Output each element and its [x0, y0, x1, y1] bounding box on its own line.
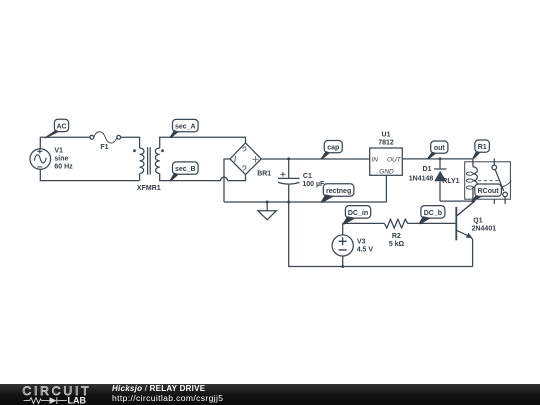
node sec_B [169, 162, 198, 182]
node sec_A [169, 119, 198, 138]
transistor Q1 2N4401 [456, 201, 496, 240]
wire Q1 emitter to bottom rail [471, 237, 473, 266]
footer bar [0, 384, 540, 405]
node AC [44, 119, 68, 138]
junction [439, 157, 442, 160]
fuse F1 [90, 132, 121, 151]
junction [287, 201, 290, 204]
relay RLY1 [442, 158, 511, 204]
diode D1 1N4148 [409, 159, 447, 201]
node out [427, 141, 448, 159]
wire collector net [440, 201, 475, 216]
node rectneg [320, 184, 354, 203]
capacitor C1 [278, 159, 325, 202]
svg-text:http://circuitlab.com/csrgjj5: http://circuitlab.com/csrgjj5 [112, 393, 223, 403]
junction [266, 201, 269, 204]
ground rail [224, 201, 386, 203]
node cap [321, 141, 343, 160]
credit text [112, 384, 223, 403]
wire U1 GND to ground rail [385, 175, 387, 202]
svg-text:LAB: LAB [68, 396, 87, 405]
regulator U1 7812 [370, 132, 403, 176]
wire sec_A [160, 137, 246, 148]
wire bridge left corner to ground rail [224, 159, 230, 202]
resistor R2 [384, 219, 410, 248]
ground [258, 202, 277, 220]
svg-text:Hicksjo / RELAY DRIVE: Hicksjo / RELAY DRIVE [112, 384, 206, 393]
CircuitLab logo [22, 384, 91, 405]
junction [341, 265, 344, 268]
voltage source V3 [332, 223, 373, 266]
junction [287, 157, 290, 160]
node RCout [472, 184, 502, 201]
node DC_in [342, 206, 370, 225]
node DC_b [419, 206, 445, 225]
wire lower rail [289, 202, 473, 267]
wire sec_B with hop over vertical wire [160, 174, 246, 181]
node R1 [472, 140, 489, 159]
wire fuse to transformer [121, 137, 140, 148]
wire bridge out to U1 IN [261, 158, 370, 160]
voltage source V1 [30, 148, 73, 171]
wire base [343, 222, 456, 224]
wire V1 left loop [40, 137, 139, 180]
bridge rectifier BR1 [230, 143, 271, 178]
junction [472, 200, 475, 203]
transformer XFMR1 [133, 147, 164, 192]
wire U1 OUT to relay [402, 159, 473, 167]
